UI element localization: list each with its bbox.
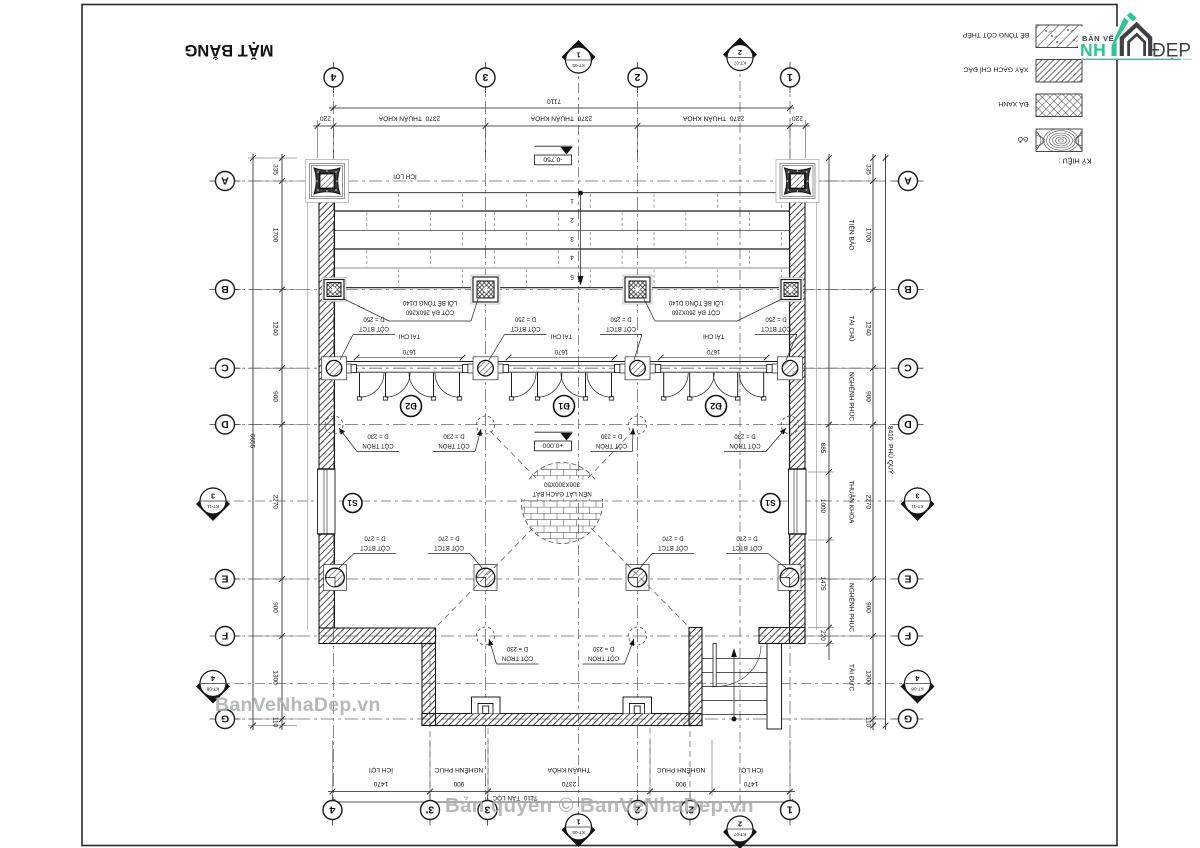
svg-text:900: 900	[272, 602, 279, 613]
svg-text:1700: 1700	[272, 228, 279, 243]
svg-text:TÀI CHI: TÀI CHI	[703, 332, 725, 339]
svg-text:G: G	[904, 712, 912, 724]
svg-text:300X300X50: 300X300X50	[544, 480, 580, 487]
svg-text:2: 2	[738, 820, 742, 829]
svg-text:GỖ: GỖ	[1018, 135, 1029, 144]
svg-text:C: C	[904, 362, 912, 374]
svg-text:E: E	[221, 572, 228, 584]
svg-text:1700: 1700	[865, 228, 872, 243]
svg-text:LÕI BÊ TÔNG D140: LÕI BÊ TÔNG D140	[402, 299, 457, 307]
svg-text:CỘT BTCT: CỘT BTCT	[606, 325, 636, 332]
svg-text:4: 4	[330, 71, 336, 83]
svg-text:KT-07: KT-07	[733, 832, 746, 837]
svg-text:1670: 1670	[706, 348, 720, 354]
svg-text:TÀI CHỦ: TÀI CHỦ	[848, 315, 857, 342]
svg-text:CỘT TRÒN: CỘT TRÒN	[362, 442, 393, 449]
svg-text:2: 2	[738, 48, 742, 57]
svg-text:2370 THUẬN KHÓA: 2370 THUẬN KHÓA	[682, 115, 744, 124]
svg-text:D = 230: D = 230	[443, 432, 465, 438]
svg-text:S1: S1	[347, 498, 358, 508]
svg-text:2370 THUẬN KHÓA: 2370 THUẬN KHÓA	[378, 115, 440, 124]
svg-text:NH: NH	[1080, 40, 1106, 60]
svg-text:4: 4	[570, 254, 574, 261]
svg-text:900: 900	[675, 780, 686, 787]
svg-text:CỘT TRÒN: CỘT TRÒN	[438, 442, 469, 449]
svg-text:E: E	[904, 572, 911, 584]
svg-text:D = 250: D = 250	[514, 315, 536, 321]
svg-text:2: 2	[634, 71, 640, 83]
svg-text:1: 1	[577, 51, 581, 60]
svg-text:CỘT TRÒN: CỘT TRÒN	[588, 654, 619, 661]
svg-text:MẶT BẰNG: MẶT BẰNG	[185, 41, 274, 60]
svg-text:3: 3	[482, 71, 488, 83]
svg-text:CỘT TRÒN: CỘT TRÒN	[596, 442, 627, 449]
svg-text:D = 230: D = 230	[367, 432, 389, 438]
svg-text:900: 900	[865, 602, 872, 613]
svg-text:-0.750: -0.750	[543, 156, 562, 163]
svg-text:4: 4	[211, 674, 215, 683]
svg-text:900: 900	[453, 780, 464, 787]
svg-text:ÍCH LỢI: ÍCH LỢI	[393, 172, 417, 181]
svg-text:1300: 1300	[865, 670, 872, 685]
svg-text:2270: 2270	[865, 495, 872, 510]
svg-text:110: 110	[272, 717, 279, 728]
svg-text:THUẬN KHÓA: THUẬN KHÓA	[848, 480, 857, 524]
svg-text:2270: 2270	[272, 495, 279, 510]
svg-text:1: 1	[577, 818, 581, 827]
svg-text:1: 1	[570, 197, 574, 204]
svg-text:A: A	[221, 174, 229, 186]
svg-text:ÍCH LỢI: ÍCH LỢI	[369, 766, 393, 775]
svg-text:NGHÊNH PHÚC: NGHÊNH PHÚC	[848, 372, 857, 421]
svg-text:D = 230: D = 230	[506, 645, 528, 651]
svg-text:CỘT BTCT: CỘT BTCT	[510, 325, 540, 332]
svg-text:1: 1	[787, 71, 793, 83]
svg-text:110: 110	[865, 717, 872, 728]
svg-text:D: D	[904, 418, 912, 430]
svg-text:2370: 2370	[561, 780, 576, 787]
svg-text:1: 1	[787, 803, 793, 815]
svg-text:2370 THUẬN KHÓA: 2370 THUẬN KHÓA	[530, 115, 592, 124]
svg-text:Đ2: Đ2	[405, 401, 417, 411]
svg-text:5: 5	[570, 273, 574, 280]
svg-text:4: 4	[916, 674, 920, 683]
svg-text:KT-05: KT-05	[572, 830, 585, 835]
svg-text:S1: S1	[765, 498, 776, 508]
svg-text:NỀN LÁT GẠCH BÁT: NỀN LÁT GẠCH BÁT	[532, 490, 592, 497]
svg-text:1300: 1300	[272, 670, 279, 685]
svg-text:D = 230: D = 230	[592, 645, 614, 651]
svg-text:3: 3	[916, 492, 920, 501]
svg-text:1670: 1670	[402, 348, 416, 354]
svg-text:CỘT BTCT: CỘT BTCT	[761, 325, 791, 332]
svg-text:NGHÊNH PHÚC: NGHÊNH PHÚC	[435, 766, 484, 775]
svg-text:B: B	[221, 283, 229, 295]
svg-text:THUẬN KHÓA: THUẬN KHÓA	[547, 766, 590, 775]
svg-text:3: 3	[211, 492, 215, 501]
svg-text:ĐÁ XANH: ĐÁ XANH	[998, 100, 1028, 109]
svg-text:D: D	[221, 418, 229, 430]
svg-text:7110: 7110	[547, 98, 562, 105]
svg-text:4: 4	[329, 803, 335, 815]
svg-text:CỘT BTCT: CỘT BTCT	[359, 325, 389, 332]
svg-text:220: 220	[320, 115, 331, 122]
svg-text:CỘT BTCT: CỘT BTCT	[360, 544, 390, 551]
svg-text:D = 230: D = 230	[600, 432, 622, 438]
svg-text:CỘT ĐÁ 260X260: CỘT ĐÁ 260X260	[405, 308, 454, 315]
svg-text:1000: 1000	[819, 499, 826, 514]
svg-text:1240: 1240	[865, 321, 872, 336]
svg-text:1670: 1670	[554, 348, 568, 354]
svg-text:LÕI BÊ TÔNG D140: LÕI BÊ TÔNG D140	[668, 299, 723, 307]
svg-text:D = 270: D = 270	[662, 534, 684, 540]
svg-text:TÀI CHI: TÀI CHI	[399, 332, 421, 339]
svg-text:KT-11: KT-11	[207, 504, 219, 509]
svg-text:D = 250: D = 250	[363, 315, 385, 321]
svg-text:B: B	[904, 283, 912, 295]
svg-text:Bản quyền © BanVeNhaDep.vn: Bản quyền © BanVeNhaDep.vn	[445, 794, 754, 817]
svg-text:900: 900	[865, 391, 872, 402]
svg-text:KT-05: KT-05	[572, 63, 585, 68]
svg-text:CỘT BTCT: CỘT BTCT	[658, 544, 688, 551]
svg-text:KT-08: KT-08	[206, 686, 219, 691]
svg-text:CỘT BTCT: CỘT BTCT	[732, 544, 762, 551]
svg-text:D = 230: D = 230	[734, 432, 756, 438]
svg-text:2: 2	[570, 216, 574, 223]
svg-text:F: F	[221, 629, 228, 641]
svg-text:D = 270: D = 270	[736, 534, 758, 540]
svg-text:6655: 6655	[249, 434, 256, 449]
svg-text:KT-11: KT-11	[911, 504, 923, 509]
svg-text:TÀI ĐỨC: TÀI ĐỨC	[848, 664, 857, 691]
svg-text:335: 335	[865, 164, 872, 175]
svg-text:F: F	[904, 629, 911, 641]
svg-text:CỘT TRÒN: CỘT TRÒN	[502, 654, 533, 661]
svg-text:CỘT ĐÁ 260X260: CỘT ĐÁ 260X260	[671, 308, 720, 315]
svg-text:1475: 1475	[819, 576, 826, 591]
svg-text:1470: 1470	[743, 780, 758, 787]
svg-text:8410 PHỦ QUÝ: 8410 PHỦ QUÝ	[887, 426, 896, 475]
svg-text:220: 220	[792, 115, 803, 122]
svg-text:KT-08: KT-08	[911, 686, 924, 691]
svg-text:ÍCH LỢI: ÍCH LỢI	[739, 766, 763, 775]
svg-text:+0.000: +0.000	[542, 442, 563, 449]
svg-text:KT-07: KT-07	[733, 60, 746, 65]
svg-text:1470: 1470	[373, 780, 388, 787]
svg-text:NGHÊNH PHÚC: NGHÊNH PHÚC	[657, 766, 706, 775]
svg-text:D = 270: D = 270	[438, 534, 460, 540]
svg-text:D = 270: D = 270	[364, 534, 386, 540]
svg-text:TÀI CHI: TÀI CHI	[551, 332, 573, 339]
svg-text:Đ2: Đ2	[710, 401, 722, 411]
svg-text:D = 250: D = 250	[610, 315, 632, 321]
svg-text:1240: 1240	[272, 321, 279, 336]
svg-text:A: A	[904, 174, 912, 186]
svg-text:KÝ HIỆU :: KÝ HIỆU :	[1059, 157, 1092, 166]
svg-text:Đ1: Đ1	[558, 401, 570, 411]
svg-text:BanVeNhaDep.vn: BanVeNhaDep.vn	[215, 694, 381, 716]
svg-text:NGHÊNH PHÚC: NGHÊNH PHÚC	[848, 583, 857, 632]
svg-text:3': 3'	[426, 803, 434, 815]
svg-text:CỘT TRÒN: CỘT TRÒN	[729, 442, 760, 449]
svg-text:685: 685	[819, 443, 826, 454]
svg-text:XÂY GẠCH CHỈ ĐẶC: XÂY GẠCH CHỈ ĐẶC	[963, 66, 1028, 75]
svg-text:900: 900	[272, 391, 279, 402]
svg-text:D = 250: D = 250	[765, 315, 787, 321]
svg-text:335: 335	[272, 164, 279, 175]
svg-text:3: 3	[570, 235, 574, 242]
svg-text:CỘT BTCT: CỘT BTCT	[434, 544, 464, 551]
svg-text:C: C	[221, 362, 229, 374]
svg-text:ĐẸP: ĐẸP	[1152, 41, 1191, 62]
